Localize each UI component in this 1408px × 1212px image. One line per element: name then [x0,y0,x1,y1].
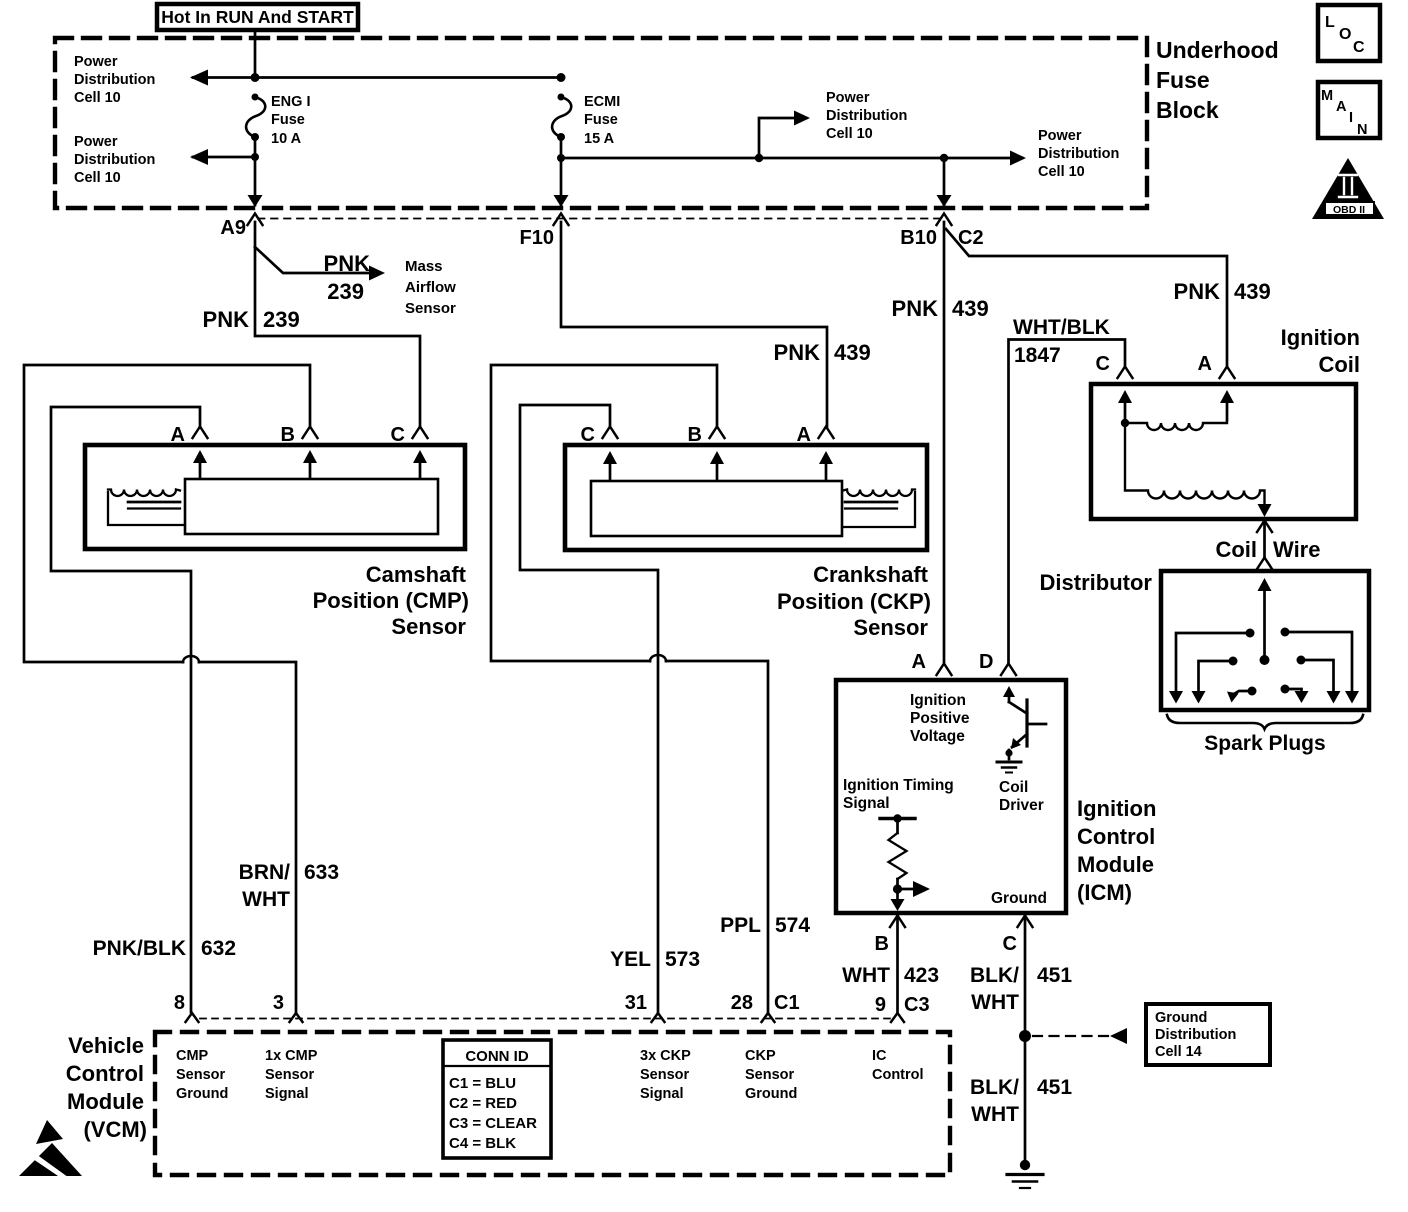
fuse ECM I 15 A [552,94,571,142]
distributor rotor feed arrow [1263,591,1266,659]
node: ground distribution tap [1019,1030,1031,1042]
svg-text:Camshaft: Camshaft [366,562,467,587]
svg-text:Module: Module [67,1089,144,1114]
connector F10 [554,214,569,226]
wire: branch up to Power Distribution (middle) [759,118,806,158]
svg-text:Mass: Mass [405,258,443,275]
arrow to Power Distribution Cell 10 upper-left [190,70,208,86]
label: Ignition Coil [1281,325,1360,377]
label: Ignition Control Module (ICM) [1077,796,1156,905]
power source label box: Hot In RUN And START [157,4,358,30]
label: IC Control [872,1048,924,1083]
svg-text:CKP: CKP [745,1048,776,1064]
icon: OBD II triangle [1312,158,1384,219]
svg-text:(VCM): (VCM) [83,1117,147,1142]
wire PNK 239 branch to Mass Airflow Sensor [255,247,368,273]
arrow to Power Distribution Cell 10 (right) [1010,151,1026,166]
svg-text:C4 = BLK: C4 = BLK [449,1135,516,1152]
connector ICM pin C [1018,916,1033,928]
node: junction at ENG fuse output [251,153,259,161]
svg-text:Power: Power [1038,128,1082,144]
dashed wire to Ground Distribution Cell 14 [1033,1035,1108,1037]
svg-text:PNK: PNK [774,340,821,365]
svg-text:D: D [979,651,993,673]
svg-text:Signal: Signal [265,1086,309,1102]
connector VCM pin 8 [186,1013,199,1022]
svg-text:F10: F10 [520,227,554,249]
label: Ignition Positive Voltage [910,692,970,745]
connector CKP pin B [710,427,725,439]
node: primary/secondary junction [1121,419,1129,427]
svg-text:Coil: Coil [1318,352,1360,377]
connector Ignition Coil pin C [1118,367,1133,379]
svg-text:Sensor: Sensor [405,300,456,317]
label: PPL 574 [720,914,810,937]
svg-text:A: A [171,424,185,446]
svg-text:I: I [1349,110,1353,126]
connector VCM pin 3 [290,1013,303,1022]
wire BRN/WHT 633: CMP pin B to VCM pin 3 (hops over 632) [24,365,310,1012]
svg-text:632: 632 [201,937,236,960]
CONN ID legend box [443,1040,551,1158]
wire: B10 exit down [943,158,946,205]
svg-text:Signal: Signal [843,795,890,812]
label: BLK/WHT 451 (upper) [970,964,1072,1014]
svg-text:WHT: WHT [842,964,890,987]
svg-text:A: A [1198,353,1212,375]
svg-text:OBD II: OBD II [1333,204,1365,216]
wire WHT 423: ICM pin B to VCM pin 9 [896,916,899,1012]
svg-text:Hot In RUN And START: Hot In RUN And START [161,7,354,27]
svg-text:C1 = BLU: C1 = BLU [449,1075,516,1092]
spark plug wire left middle [1192,657,1238,704]
CMP inner element rectangle [185,479,438,534]
Crankshaft Position (CKP) Sensor box [565,445,927,550]
Ignition Coil box [1091,384,1356,519]
svg-text:WHT: WHT [971,1103,1019,1126]
arrow: A9 exit arrowhead [248,195,263,207]
svg-text:3x CKP: 3x CKP [640,1048,691,1064]
svg-text:Cell 10: Cell 10 [826,126,873,142]
svg-text:IC: IC [872,1048,887,1064]
svg-text:10 A: 10 A [271,131,302,147]
node: bus end at ECM fuse [557,73,566,82]
svg-text:439: 439 [834,340,871,365]
svg-text:WHT: WHT [242,888,290,911]
svg-text:C: C [581,424,595,446]
label: Underhood Fuse Block [1156,37,1279,123]
svg-text:ENG I: ENG I [271,94,310,110]
svg-text:8: 8 [174,992,185,1014]
svg-text:Distribution: Distribution [74,152,155,168]
Vehicle Control Module dashed box [155,1032,950,1175]
svg-text:Block: Block [1156,97,1219,123]
svg-text:BRN/: BRN/ [239,861,290,884]
Distributor box [1161,571,1369,710]
svg-text:1847: 1847 [1014,344,1061,367]
spark plug wire left outer [1169,629,1255,704]
svg-text:B: B [688,424,702,446]
svg-text:B: B [875,933,889,955]
wire PNK 239: A9 to CMP pin C [255,222,420,426]
wire PPL 574: CKP pin B to VCM pin 28 (hops over 573) [491,365,768,1012]
svg-text:Ground: Ground [745,1086,797,1102]
coil primary winding [1125,421,1227,430]
node: junction at B10 [940,154,948,162]
wire PNK/BLK 632: CMP pin A to VCM pin 8 [51,407,200,1012]
label: Power Distribution Cell 10 (middle) [826,90,907,142]
svg-text:Position (CMP): Position (CMP) [313,588,469,613]
connector A9 [248,214,263,226]
label: Power Distribution Cell 10 (upper left) [74,54,155,106]
svg-text:CONN ID: CONN ID [465,1048,529,1065]
svg-text:YEL: YEL [610,948,651,971]
svg-text:Cell 10: Cell 10 [74,170,121,186]
svg-text:WHT: WHT [971,991,1019,1014]
svg-text:Power: Power [826,90,870,106]
node: resistor output junction [893,884,902,893]
svg-text:Sensor: Sensor [391,614,466,639]
svg-text:Coil: Coil [999,779,1028,796]
svg-text:Power: Power [74,54,118,70]
wire: ENG I fuse output down to A9 [254,137,257,205]
svg-text:239: 239 [327,279,364,304]
label: CKP Sensor Ground [745,1048,797,1102]
wire hop: 633 over 632 [183,656,199,662]
CKP pin C arrow [609,463,612,480]
svg-text:423: 423 [904,964,939,987]
CMP pickup coil box [108,490,185,526]
wire: ECM fuse output down to F10 [560,137,563,205]
label: ENG I Fuse 10 A [271,94,310,147]
svg-text:Positive: Positive [910,710,970,727]
connector CKP pin C [603,427,618,439]
fuse ENG I 10 A [246,94,265,142]
connector B10 / C2 [937,214,952,226]
label: WHT 423 [842,964,939,987]
svg-text:N: N [1357,122,1367,138]
wire PNK 439: C2 to Ignition Coil pin A [946,229,1227,366]
label: PNK 439 (C2 run) [1174,279,1271,304]
svg-text:(ICM): (ICM) [1077,880,1132,905]
svg-text:A: A [1336,99,1347,115]
svg-text:Module: Module [1077,852,1154,877]
svg-text:C3: C3 [904,994,930,1016]
svg-text:A9: A9 [220,217,246,239]
wire PNK 439: F10 to CKP pin A [561,222,827,426]
svg-text:C2 = RED: C2 = RED [449,1095,517,1112]
label: PNK/BLK 632 [93,937,236,960]
svg-text:Coil: Coil [1215,537,1257,562]
svg-text:O: O [1339,26,1351,43]
coil secondary winding [1125,423,1265,505]
svg-text:WHT/BLK: WHT/BLK [1013,316,1110,339]
icon: MAIN box [1318,82,1380,138]
arrow: B10 exit arrowhead [937,195,952,207]
svg-text:C: C [1353,39,1365,56]
transistor Q coil driver [1003,686,1046,749]
connector Ignition Coil pin A [1220,367,1235,379]
connector VCM pin 28 / C1 [762,1013,775,1022]
label: Coil Driver [999,779,1044,814]
svg-text:C3 = CLEAR: C3 = CLEAR [449,1115,537,1132]
label: PNK 239 (branch) [324,251,371,304]
arrow to Mass Airflow Sensor [369,266,385,281]
svg-text:C1: C1 [774,992,800,1014]
label: Vehicle Control Module (VCM) [66,1033,147,1142]
CMP pin A arrow [199,462,202,478]
svg-text:M: M [1321,88,1333,104]
label: PNK 439 (B10 run) [892,296,989,321]
svg-text:Control: Control [872,1067,924,1083]
label: Mass Airflow Sensor [405,258,456,317]
svg-text:Ignition: Ignition [910,692,966,709]
ESD warning symbol [19,1120,82,1180]
label: 1x CMP Sensor Signal [265,1048,318,1102]
svg-text:573: 573 [665,948,700,971]
connector at distributor cap [1257,558,1272,570]
svg-text:Control: Control [66,1061,144,1086]
svg-text:CMP: CMP [176,1048,209,1064]
svg-text:Distribution: Distribution [1038,146,1119,162]
svg-text:239: 239 [263,307,300,332]
wire PNK 439: B10 down to ICM pin A [943,222,946,664]
svg-text:Cell 14: Cell 14 [1155,1044,1202,1060]
svg-text:PNK: PNK [324,251,371,276]
svg-text:BLK/: BLK/ [970,1076,1019,1099]
svg-text:Distribution: Distribution [826,108,907,124]
svg-text:Underhood: Underhood [1156,37,1279,63]
svg-text:Ignition: Ignition [1077,796,1156,821]
connector CMP pin B [303,427,318,439]
arrow toward ground distribution [1110,1028,1127,1044]
Underhood Fuse Block dashed enclosure [55,38,1147,208]
svg-text:15 A: 15 A [584,131,615,147]
ground (coil driver emitter) [997,749,1021,772]
svg-text:451: 451 [1037,1076,1072,1099]
spark plug wire left inner [1227,687,1257,703]
icon: LOC box [1318,5,1380,61]
svg-text:C: C [391,424,405,446]
connector VCM pin 31 [652,1013,665,1022]
svg-text:574: 574 [775,914,810,937]
svg-text:Wire: Wire [1273,537,1320,562]
brace under distributor [1167,715,1363,729]
label: Ignition Timing Signal [843,777,954,812]
svg-text:PNK/BLK: PNK/BLK [93,937,186,960]
connector ICM pin B [890,916,905,928]
svg-text:Signal: Signal [640,1086,684,1102]
arrow: F10 exit arrowhead [554,195,569,207]
svg-text:31: 31 [625,992,647,1014]
connector VCM pin 9 / C3 [891,1013,904,1022]
svg-text:Sensor: Sensor [640,1067,690,1083]
wire WHT/BLK 1847: Ignition Coil pin C to ICM pin D [1009,340,1126,665]
coil pin C arrow (inside) [1124,403,1127,421]
svg-text:L: L [1325,14,1335,31]
svg-text:B10: B10 [900,227,937,249]
node: rotor center [1260,655,1270,665]
svg-text:439: 439 [952,296,989,321]
svg-text:C: C [1096,353,1110,375]
svg-text:ECMI: ECMI [584,94,620,110]
svg-text:PNK: PNK [1174,279,1221,304]
svg-text:Cell 10: Cell 10 [74,90,121,106]
connector face dashed line under fuse block [258,218,944,220]
CKP pin B arrow [716,463,719,480]
svg-text:Driver: Driver [999,797,1044,814]
svg-text:Crankshaft: Crankshaft [813,562,929,587]
svg-text:Sensor: Sensor [176,1067,226,1083]
arrow to Power Distribution Cell 10 lower-left [190,149,208,165]
label: WHT/BLK 1847 [1013,316,1110,367]
arrow: timing signal to coil driver [898,888,915,891]
svg-text:Ground: Ground [1155,1010,1207,1026]
svg-text:Fuse: Fuse [584,112,618,128]
spark plug wire right inner [1281,685,1309,704]
svg-text:Fuse: Fuse [271,112,305,128]
label: Power Distribution Cell 10 (right) [1038,128,1119,180]
label: Crankshaft Position (CKP) Sensor [777,562,931,640]
svg-text:Ground: Ground [991,890,1047,907]
svg-text:Spark Plugs: Spark Plugs [1204,732,1325,755]
svg-text:BLK/: BLK/ [970,964,1019,987]
svg-text:439: 439 [1234,279,1271,304]
wire BLK/WHT 451: ICM pin C down to ground [1024,916,1027,1163]
svg-text:Distributor: Distributor [1040,570,1153,595]
svg-text:1x CMP: 1x CMP [265,1048,318,1064]
svg-text:28: 28 [731,992,753,1014]
svg-text:Fuse: Fuse [1156,67,1210,93]
label: PNK 239 (vertical run) [203,307,300,332]
svg-text:Sensor: Sensor [265,1067,315,1083]
wire: branch right to Power Distribution (right) [944,157,1022,160]
wire: bus to Power Distribution (upper left) [193,76,561,79]
svg-text:Sensor: Sensor [745,1067,795,1083]
svg-text:B: B [281,424,295,446]
Ignition Control Module box [836,680,1066,913]
label: Power Distribution Cell 10 (lower left) [74,134,155,186]
arrow: ICM pin B exit [891,899,905,911]
svg-text:A: A [912,651,926,673]
node: junction ECM fuse output [557,154,565,162]
arrow to Power Distribution Cell 10 (middle) [794,111,810,126]
label: YEL 573 [610,948,700,971]
label: BLK/WHT 451 (lower) [970,1076,1072,1126]
spark plug wire right outer [1281,628,1360,704]
svg-text:9: 9 [875,994,886,1016]
svg-text:Voltage: Voltage [910,728,965,745]
CKP pin A arrow [825,463,828,480]
CKP pickup coil box [842,490,915,528]
connector CMP pin A [193,427,208,439]
label: BRN/WHT 633 [239,861,339,911]
label: Camshaft Position (CMP) Sensor [313,562,469,639]
svg-text:Distribution: Distribution [74,72,155,88]
wire: branch to Power Distribution (lower left) [193,156,255,159]
svg-text:Sensor: Sensor [853,615,928,640]
svg-text:A: A [797,424,811,446]
connector ICM pin D [1001,664,1016,676]
coil pin A arrow (inside) [1226,403,1229,420]
svg-text:633: 633 [304,861,339,884]
svg-text:Power: Power [74,134,118,150]
ground G103 [1007,1160,1043,1188]
connector CMP pin C [413,427,428,439]
CKP inner element rectangle [591,481,842,536]
svg-text:C: C [1003,933,1017,955]
svg-text:Vehicle: Vehicle [68,1033,144,1058]
label box: Ground Distribution Cell 14 [1146,1004,1270,1065]
label: CMP Sensor Ground [176,1048,228,1102]
node: junction branch up [755,154,763,162]
svg-text:3: 3 [273,992,284,1014]
Camshaft Position (CMP) Sensor box [85,445,465,549]
wire: bus from ECM fuse to B10 [561,157,944,160]
svg-text:Airflow: Airflow [405,279,456,296]
connector CKP pin A [819,427,834,439]
CMP pin B arrow [309,462,312,478]
svg-text:Ignition: Ignition [1281,325,1360,350]
label: PNK 439 (F10 run) [774,340,871,365]
svg-text:Ignition Timing: Ignition Timing [843,777,954,794]
connector below coil [1257,521,1272,533]
label: ECM I Fuse 15 A [584,94,620,147]
svg-text:451: 451 [1037,964,1072,987]
wire: coil wire to distributor [1263,521,1266,558]
svg-text:PPL: PPL [720,914,761,937]
label: Coil Wire [1215,537,1320,562]
svg-text:PNK: PNK [892,296,939,321]
arrow: secondary output down [1258,504,1272,517]
CMP pin C arrow [419,462,422,478]
spark plug wire right middle [1297,656,1341,704]
svg-text:PNK: PNK [203,307,250,332]
node: junction hot feed / bus [251,73,260,82]
svg-text:Control: Control [1077,824,1155,849]
VCM connector face dashed line [200,1018,890,1020]
svg-text:Ground: Ground [176,1086,228,1102]
wire hop: 574 over 573 [650,655,666,661]
svg-text:Distribution: Distribution [1155,1027,1236,1043]
svg-text:Position (CKP): Position (CKP) [777,589,931,614]
label: 3x CKP Sensor Signal [640,1048,691,1102]
connector ICM pin A [937,664,952,676]
wire YEL 573: CKP pin C to VCM pin 31 [520,405,658,1012]
resistor (ignition timing signal pull-up) [880,814,915,898]
svg-text:Cell 10: Cell 10 [1038,164,1085,180]
wire: hot feed into fuse block [254,30,257,78]
